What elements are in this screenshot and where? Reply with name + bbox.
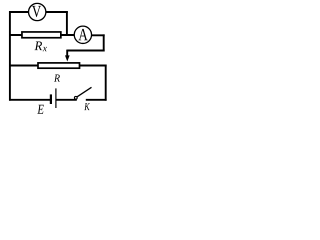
wire: top-right vertical drop: [66, 11, 68, 35]
wire: left rail: [9, 11, 11, 101]
wire: bottom rail middle (battery to switch): [56, 99, 77, 101]
wire: Rx branch: [9, 34, 74, 36]
wire: top rail: [9, 11, 68, 13]
battery E short plate: [50, 94, 52, 104]
battery E long plate: [55, 88, 57, 108]
resistor Rx box: [22, 32, 61, 38]
wire: lower right rail: [105, 65, 107, 101]
wire: rheostat left branch: [9, 65, 39, 67]
voltmeter V: [29, 3, 46, 20]
wiper arrow shaft: [66, 50, 68, 57]
wire: bottom rail left segment: [9, 99, 50, 101]
wire: bottom rail right segment: [86, 99, 107, 101]
label E: [37, 105, 44, 114]
wire: wiper return horizontal: [67, 50, 104, 52]
wire: ammeter right to upper-right corner: [83, 34, 105, 36]
wiper arrowhead: [65, 55, 70, 61]
wire: rheostat right to right rail: [80, 65, 107, 67]
ammeter A: [74, 26, 91, 43]
switch K pivot: [74, 96, 77, 99]
label Rx: [35, 42, 43, 51]
label K: [84, 103, 90, 110]
label R: [54, 75, 60, 82]
wire: upper right vertical: [103, 34, 105, 51]
rheostat R box: [38, 63, 80, 68]
switch K blade: [77, 87, 92, 97]
